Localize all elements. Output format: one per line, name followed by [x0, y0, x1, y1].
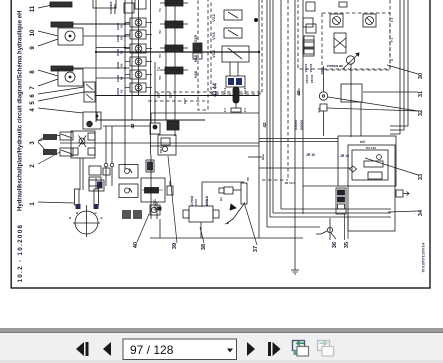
svg-text:43 44: 43 44	[213, 82, 219, 97]
svg-text:E1: E1	[219, 197, 223, 201]
svg-text:30: 30	[418, 73, 424, 79]
svg-text:Y1: Y1	[158, 8, 162, 12]
svg-text:JR 10: JR 10	[340, 154, 349, 158]
svg-text:42: 42	[262, 122, 267, 128]
svg-text:V3.4: V3.4	[212, 50, 216, 57]
svg-text:V-HxU: V-HxU	[190, 195, 194, 206]
svg-text:A2: A2	[120, 76, 124, 80]
svg-text:JR 10: JR 10	[306, 153, 315, 157]
svg-text:V2003: V2003	[309, 63, 313, 72]
svg-text:2bar: 2bar	[261, 153, 265, 160]
svg-text:Y4: Y4	[158, 76, 162, 80]
svg-text:V6000: V6000	[300, 120, 304, 130]
svg-text:10.2 - 10.2008: 10.2 - 10.2008	[17, 224, 24, 283]
svg-text:HAD: HAD	[194, 70, 198, 78]
svg-text:V2001: V2001	[304, 63, 308, 72]
svg-text:A2: A2	[120, 89, 124, 93]
svg-text:2 1: 2 1	[223, 108, 227, 112]
svg-text:G1R: G1R	[194, 34, 198, 42]
svg-text:A2: A2	[120, 24, 124, 28]
svg-text:PB 1: PB 1	[159, 146, 163, 153]
svg-text:Hydraulikschaltplan/Hydraulic: Hydraulikschaltplan/Hydraulic circuit di…	[18, 11, 24, 211]
svg-text:37: 37	[253, 246, 259, 252]
svg-text:11: 11	[30, 5, 36, 12]
svg-text:A2: A2	[120, 63, 124, 67]
svg-text:2 1: 2 1	[243, 108, 247, 112]
svg-text:24VDC: 24VDC	[153, 199, 157, 211]
svg-text:V3003: V3003	[310, 74, 314, 83]
svg-text:V5: V5	[246, 177, 250, 181]
svg-text:4 0 1 2: 4 0 1 2	[243, 87, 247, 96]
svg-text:G1T: G1T	[183, 98, 187, 104]
svg-text:V3.6: V3.6	[212, 32, 216, 39]
svg-text:V-HxU: V-HxU	[205, 195, 209, 206]
svg-text:33: 33	[418, 174, 424, 180]
svg-text:38: 38	[201, 244, 207, 250]
svg-text:A2: A2	[120, 36, 124, 40]
svg-text:36: 36	[332, 242, 338, 248]
svg-text:X 1: X 1	[390, 17, 394, 22]
svg-text:40: 40	[133, 242, 139, 248]
svg-text:PUMPE: PUMPE	[113, 4, 117, 14]
svg-text:JR 10 C: JR 10 C	[284, 181, 296, 185]
svg-text:X: X	[390, 59, 394, 61]
svg-text:39: 39	[172, 243, 178, 249]
svg-text:G/T: G/T	[169, 91, 173, 98]
svg-text:34: 34	[418, 209, 424, 216]
svg-text:POWER BE: POWER BE	[327, 64, 343, 68]
svg-text:10: 10	[30, 29, 36, 36]
svg-text:Y 1: Y 1	[390, 37, 394, 42]
svg-text:V17: V17	[317, 107, 321, 113]
svg-text:V3000: V3000	[294, 120, 298, 130]
svg-text:V3.2: V3.2	[212, 14, 216, 21]
svg-text:31: 31	[418, 91, 424, 97]
svg-text:T0 9.0/T0 9.1/T0 9.4: T0 9.0/T0 9.1/T0 9.4	[422, 243, 426, 273]
svg-text:4 0 1 2: 4 0 1 2	[223, 87, 227, 96]
svg-text:V100: V100	[297, 88, 301, 95]
svg-text:97 / 128: 97 / 128	[130, 343, 174, 357]
svg-text:35: 35	[344, 242, 350, 248]
svg-text:V3001: V3001	[305, 74, 309, 83]
svg-text:Y2: Y2	[158, 30, 162, 34]
svg-text:G/T: G/T	[157, 91, 161, 98]
svg-text:mV: mV	[360, 140, 366, 144]
svg-text:T1: T1	[157, 67, 161, 71]
svg-text:GUA: GUA	[320, 67, 324, 75]
svg-text:32: 32	[418, 110, 424, 116]
svg-text:HAD: HAD	[194, 54, 198, 62]
svg-text:PV 100: PV 100	[366, 146, 376, 150]
svg-text:Y3: Y3	[158, 54, 162, 58]
svg-text:A2: A2	[120, 50, 124, 54]
